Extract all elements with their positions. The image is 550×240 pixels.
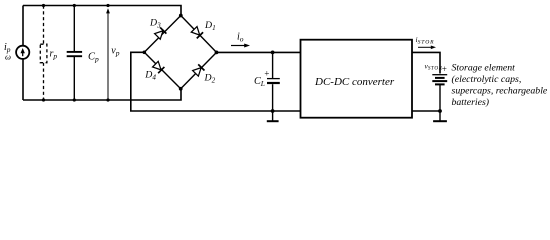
node bridge right: [215, 51, 219, 55]
diode D1: [181, 16, 217, 53]
node CL bottom: [271, 109, 275, 113]
resistor rP: [40, 6, 57, 101]
current source iP: [4, 42, 29, 62]
ground under CL: [267, 111, 279, 121]
current label io: [231, 32, 250, 48]
svg-text:+: +: [264, 68, 270, 78]
svg-text:supercaps, rechargeable: supercaps, rechargeable: [452, 86, 548, 97]
node CL top: [271, 51, 275, 55]
svg-text:(electrolytic caps,: (electrolytic caps,: [452, 74, 522, 85]
node battery bottom: [438, 109, 442, 113]
battery vSTOR: [425, 61, 448, 84]
DC-DC converter U1: [301, 40, 413, 118]
wire battery bottom: [439, 84, 441, 111]
node bottom rail CP: [73, 98, 76, 101]
current label iSTOR: [416, 35, 437, 49]
wire converter to battery ground rail: [412, 110, 440, 112]
node top rail rP: [42, 4, 45, 7]
wire converter output: [412, 52, 440, 73]
node bridge left: [143, 51, 147, 55]
node bottom rail vP: [106, 98, 109, 101]
node bridge bottom: [179, 87, 183, 91]
annotation storage element: [452, 63, 548, 109]
capacitor CP: [67, 6, 99, 101]
wire bridge left to ground rail: [131, 52, 301, 111]
voltage arrow vP: [106, 8, 120, 100]
wire top rail: [23, 6, 181, 16]
wire left vertical: [22, 6, 24, 101]
diode D3: [144, 16, 181, 53]
svg-text:ω: ω: [5, 52, 11, 62]
node bridge top: [179, 14, 183, 18]
diode D2: [181, 52, 217, 88]
svg-text:Storage element: Storage element: [452, 63, 516, 74]
node top rail CP: [73, 4, 76, 7]
diode D4: [144, 52, 180, 89]
svg-text:DC-DC converter: DC-DC converter: [314, 76, 395, 88]
wire bridge right to converter: [217, 51, 301, 53]
capacitor CL: [254, 52, 280, 111]
ground under battery: [433, 111, 447, 121]
svg-text:+: +: [441, 64, 447, 74]
node top rail vP: [106, 4, 109, 7]
svg-text:batteries): batteries): [452, 97, 490, 108]
node bottom rail rP: [42, 98, 45, 101]
wire bottom rail: [23, 89, 181, 100]
